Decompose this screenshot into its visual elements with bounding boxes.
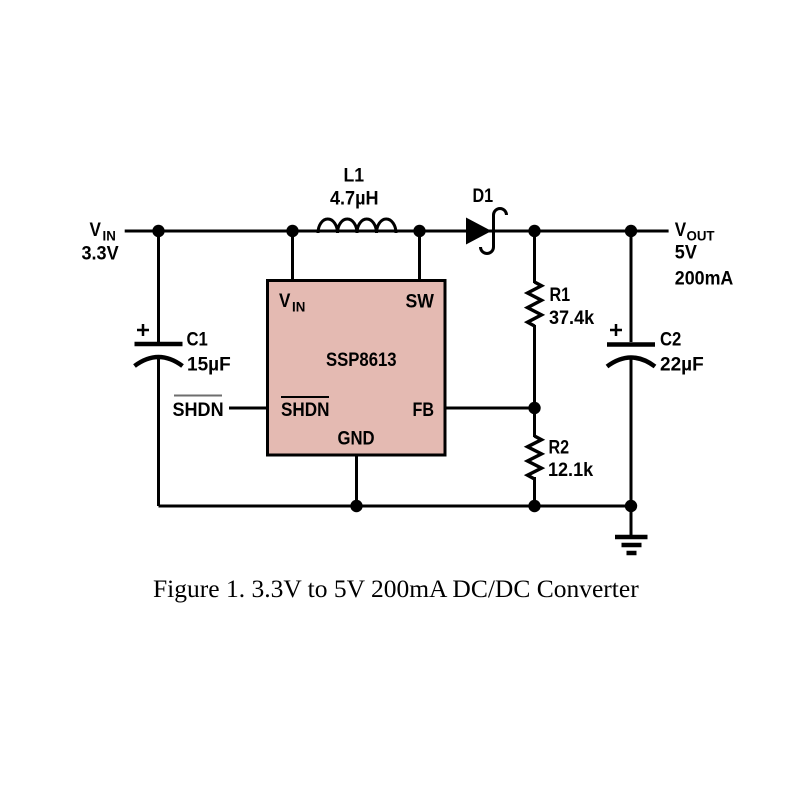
wire C2 branch upper [630,231,633,342]
wire R1 to FB node to R2 [533,325,536,437]
value 37.4k [549,307,595,329]
label SSP8613 [326,349,397,370]
svg-text:C1: C1 [187,329,208,350]
svg-text:200mA: 200mA [675,267,734,289]
svg-text:4.7µH: 4.7µH [330,187,378,209]
svg-text:IN: IN [292,299,305,314]
svg-text:R1: R1 [550,284,571,306]
op-amp U1 SSP8613 IC body [268,281,446,456]
wire GND pin [355,455,358,506]
svg-text:5V: 5V [675,241,698,263]
node R2 bus junction [528,500,540,512]
wire left vertical C1 branch upper [157,231,160,342]
inductor L1 [318,219,396,233]
value 12.1k [548,459,594,481]
node FB junction [528,402,540,414]
value 22uF [660,355,704,376]
node inductor right junction [413,225,425,237]
svg-text:3.3V: 3.3V [82,242,120,264]
value 4.7uH [330,187,378,209]
node Vout junction [625,225,637,237]
node VOUT label [675,219,686,240]
svg-text:Figure 1. 3.3V to 5V 200mA DC/: Figure 1. 3.3V to 5V 200mA DC/DC Convert… [153,574,639,603]
svg-text:GND: GND [338,428,375,449]
svg-text:SHDN: SHDN [281,399,329,420]
pin GND [338,428,375,449]
node C2 bus junction [625,500,637,512]
pin SHDN (with overline) [281,399,329,420]
wire top bus Vin to Vout [125,230,669,233]
node Vin junction [152,225,164,237]
wire SW pin [418,231,421,282]
capacitor C1 [135,342,183,347]
node VIN label [90,219,101,240]
wire Vin pin [291,231,294,282]
wire bottom bus [159,505,632,508]
svg-text:C2: C2 [660,329,681,350]
wire left vertical C1 branch lower [157,357,160,506]
wire SHDN pin [229,407,268,410]
wire R1 branch upper [533,231,536,283]
node diode cathode junction [528,225,540,237]
svg-text:SHDN: SHDN [173,399,224,421]
svg-text:22µF: 22µF [660,355,704,376]
svg-text:15µF: 15µF [187,355,231,376]
node inductor left junction [286,225,298,237]
svg-text:FB: FB [413,399,435,421]
value 5V [675,241,698,263]
wire R2 to bottom bus [533,477,536,506]
label L1 [344,164,365,186]
svg-text:V: V [279,290,290,311]
svg-text:R2: R2 [549,436,570,458]
node SHDN external label (with overline) [173,399,224,421]
value 200mA [675,267,734,289]
svg-text:37.4k: 37.4k [549,307,595,329]
label R1 [550,284,571,306]
pin VIN [279,290,290,311]
wire C2 branch lower [630,357,633,535]
svg-text:D1: D1 [473,185,494,207]
ground [615,535,648,540]
svg-text:SSP8613: SSP8613 [326,349,397,370]
diode D1 (Schottky) [466,218,492,245]
svg-text:V: V [90,219,101,240]
pin FB [413,399,435,421]
label C1 [187,329,208,350]
value 3.3V [82,242,120,264]
capacitor C2 [607,342,655,347]
label C2 [660,329,681,350]
pin SW [406,290,435,312]
svg-text:SW: SW [406,290,435,312]
svg-text:12.1k: 12.1k [548,459,594,481]
wire FB pin [445,407,535,410]
node GND bus junction [350,500,362,512]
resistor R1 [528,282,542,326]
svg-text:L1: L1 [344,164,365,186]
label R2 [549,436,570,458]
value 15uF [187,355,231,376]
label D1 [473,185,494,207]
resistor R2 [528,436,542,479]
svg-text:V: V [675,219,686,240]
